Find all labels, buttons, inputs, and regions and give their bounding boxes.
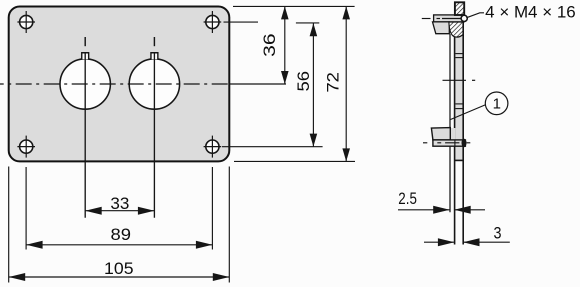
svg-text:89: 89: [111, 225, 132, 244]
svg-text:4 × M4 × 16: 4 × M4 × 16: [485, 4, 576, 22]
svg-text:3: 3: [494, 223, 502, 242]
svg-text:33: 33: [110, 194, 129, 213]
svg-text:56: 56: [294, 71, 313, 92]
svg-text:72: 72: [323, 72, 342, 93]
svg-text:1: 1: [493, 96, 501, 113]
svg-text:2.5: 2.5: [398, 189, 417, 208]
svg-text:105: 105: [104, 259, 134, 278]
svg-text:36: 36: [260, 33, 279, 57]
